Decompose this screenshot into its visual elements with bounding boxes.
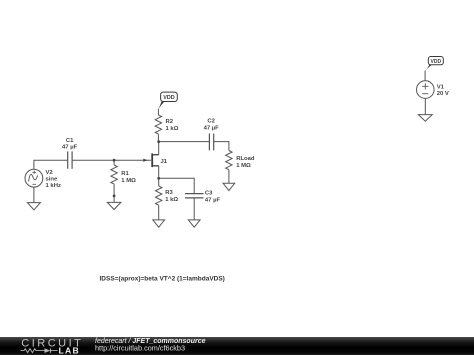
node A gate junction <box>113 159 116 162</box>
svg-text:1 kHz: 1 kHz <box>46 183 61 189</box>
svg-text:1 MΩ: 1 MΩ <box>121 178 136 184</box>
svg-text:1 kΩ: 1 kΩ <box>166 126 179 132</box>
svg-text:V1: V1 <box>437 85 445 91</box>
ground under C3 <box>188 220 200 227</box>
svg-text:C2: C2 <box>207 119 215 125</box>
voltage source V2 <box>25 169 43 187</box>
resistor RLoad <box>226 151 232 170</box>
wire C3 to ground <box>193 198 195 220</box>
resistor R2 <box>155 115 161 134</box>
wire R1 stems <box>113 160 115 202</box>
svg-text:C3: C3 <box>205 191 213 197</box>
svg-text:IDSS=(aprox)=beta VT^2 (1=lamb: IDSS=(aprox)=beta VT^2 (1=lambdaVDS) <box>100 275 225 283</box>
ground under R1 <box>107 202 121 209</box>
svg-text:47 µF: 47 µF <box>205 197 221 203</box>
wire drain net to C2 and RLoad <box>159 142 229 151</box>
wire R2 stems <box>157 109 159 142</box>
wire RLoad to ground <box>228 170 230 184</box>
logo wire with resistor and diode <box>21 348 58 352</box>
label V1 value <box>437 85 449 98</box>
ground under RLoad <box>223 183 235 190</box>
node drain junction <box>157 140 160 143</box>
gate arrow <box>143 159 148 162</box>
svg-text:R1: R1 <box>121 171 129 177</box>
ground under V1 <box>418 115 432 122</box>
svg-text:1 kΩ: 1 kΩ <box>165 197 178 203</box>
svg-text:C1: C1 <box>66 138 74 144</box>
wire V1 stems <box>424 71 426 115</box>
label C1 value <box>62 138 78 150</box>
wire V2 to ground <box>33 187 35 203</box>
node R1 bottom <box>113 195 116 198</box>
svg-text:1 MΩ: 1 MΩ <box>236 163 251 169</box>
svg-text:http://circuitlab.com/cf6ckb3: http://circuitlab.com/cf6ckb3 <box>95 344 185 353</box>
svg-text:VDD: VDD <box>431 59 442 65</box>
svg-text:47 µF: 47 µF <box>62 145 78 151</box>
VDD symbol main <box>158 92 177 110</box>
resistor R1 <box>111 165 117 184</box>
label C2 value <box>204 119 220 132</box>
label C3 value <box>205 191 221 204</box>
voltage source V1 <box>417 81 435 99</box>
label R3 value <box>165 190 178 203</box>
wire R3 stems <box>158 178 160 220</box>
svg-text:sine: sine <box>46 177 59 183</box>
label RLoad value <box>236 156 255 169</box>
capacitor C3 <box>185 194 204 198</box>
svg-text:J1: J1 <box>161 159 168 165</box>
resistor R3 <box>156 186 162 205</box>
label R2 value <box>166 119 179 132</box>
svg-text:R3: R3 <box>165 190 173 196</box>
label V2 value <box>46 170 61 189</box>
wire gate net horizontal <box>34 160 151 169</box>
svg-text:RLoad: RLoad <box>236 156 255 162</box>
wire source net to C3 <box>159 178 195 193</box>
svg-text:V2: V2 <box>46 170 54 176</box>
svg-text:LAB: LAB <box>59 346 81 355</box>
svg-text:VDD: VDD <box>163 95 174 101</box>
capacitor C2 <box>209 134 213 151</box>
svg-text:R2: R2 <box>166 119 174 125</box>
svg-text:20 V: 20 V <box>437 91 449 97</box>
transistor J1 <box>151 142 158 179</box>
ground under R3 <box>153 220 165 227</box>
svg-text:47 µF: 47 µF <box>204 125 220 131</box>
label R1 value <box>121 171 136 184</box>
VDD symbol V1 <box>425 57 443 72</box>
ground under V2 <box>27 203 40 210</box>
node source junction <box>157 177 160 180</box>
capacitor C1 <box>68 151 72 168</box>
